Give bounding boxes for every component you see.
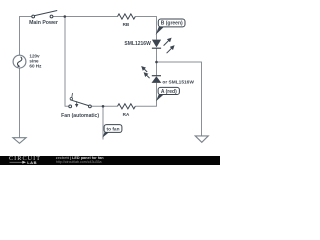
resistor RA xyxy=(118,104,136,109)
wire top rail from switch to RB xyxy=(53,16,118,18)
ground right xyxy=(195,136,208,142)
svg-text:or SML1516W: or SML1516W xyxy=(162,79,194,85)
LED D2 (red) xyxy=(143,67,162,83)
svg-text:A (red): A (red) xyxy=(161,89,177,95)
switch SW1 Main Power xyxy=(32,11,57,18)
wire right rail to ground xyxy=(157,62,202,136)
svg-text:SML1216W: SML1216W xyxy=(124,41,151,47)
footer bar xyxy=(0,156,220,165)
switch SW2 Fan (automatic) xyxy=(69,93,92,108)
wire RA to LED D2 branch xyxy=(135,83,156,107)
wire left rail top xyxy=(19,17,21,56)
svg-text:Fan (automatic): Fan (automatic) xyxy=(61,113,99,119)
svg-text:60 Hz: 60 Hz xyxy=(29,63,42,68)
LED D1 SML1216W xyxy=(152,39,173,53)
wire left rail bottom xyxy=(19,68,21,138)
junction node fan branch xyxy=(102,105,105,108)
svg-text:to fan: to fan xyxy=(106,127,119,133)
svg-text:RB: RB xyxy=(123,22,130,27)
svg-text:RA: RA xyxy=(123,112,130,117)
voltage source V1 xyxy=(13,55,26,68)
wire LED D1 to LED D2 xyxy=(156,48,158,75)
ground left xyxy=(13,138,26,144)
wire fan switch to junction and RA xyxy=(91,105,117,107)
node B flag (green) xyxy=(156,19,185,35)
junction node between LEDs xyxy=(155,61,158,64)
wire top rail from corner to switch xyxy=(19,16,32,18)
wire LED D2 to bottom rail xyxy=(156,83,158,106)
resistor RB xyxy=(118,14,136,19)
wire top rail RB to right corner and down to LED D1 xyxy=(135,17,156,40)
wire fan branch vertical xyxy=(65,17,69,107)
svg-text:Main Power: Main Power xyxy=(29,20,58,26)
svg-text:B (green): B (green) xyxy=(161,21,183,27)
node to-fan flag xyxy=(102,125,121,138)
CircuitLab logo xyxy=(9,155,41,165)
svg-text:LAB: LAB xyxy=(27,160,37,165)
junction node at top of fan branch xyxy=(64,15,67,18)
svg-text:http://circuitlab.com/c43u35a: http://circuitlab.com/c43u35a xyxy=(56,160,102,164)
V1 value label 120v sine 60 Hz xyxy=(29,54,42,69)
node A flag (red) xyxy=(156,87,179,101)
wire to-fan stub xyxy=(102,106,104,139)
